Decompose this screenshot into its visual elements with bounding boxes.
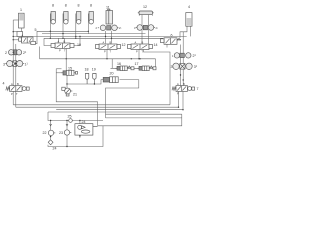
wire 15 left entry — [56, 72, 61, 74]
wire left bus vertical 2 — [15, 44, 17, 107]
wire 20 right — [120, 79, 139, 81]
wire cylinder4 drop2 — [190, 26, 192, 36]
wire bottom supply y120.5 — [48, 112, 103, 121]
wire comp16-17 line — [111, 59, 156, 69]
valve V5 — [19, 37, 36, 45]
svg-text:P: P — [59, 49, 61, 53]
wire right col vertical b — [182, 32, 184, 86]
valve under 11 — [98, 25, 119, 31]
suction cylinder 8a — [51, 12, 55, 24]
svg-text:12: 12 — [122, 43, 126, 47]
wire left bus vertical 1 — [12, 20, 14, 105]
svg-text:8: 8 — [78, 4, 80, 8]
drain diamond 22 — [48, 140, 53, 145]
wire comp23 drop — [66, 121, 68, 130]
svg-text:1¹: 1¹ — [25, 63, 29, 67]
wire comp22 drop — [50, 121, 52, 131]
wire assembly13 bar legs — [141, 15, 143, 25]
wire valve12 legs — [105, 31, 107, 44]
svg-text:A: A — [22, 34, 24, 38]
wire 21 drop — [66, 76, 68, 89]
wire stem cyl 8a — [49, 14, 51, 39]
drain valve 23 — [64, 124, 71, 135]
svg-text:P: P — [104, 50, 106, 54]
svg-text:21: 21 — [73, 93, 77, 97]
svg-text:19: 19 — [92, 68, 96, 72]
tiny port letters — [11, 34, 185, 96]
svg-text:A: A — [135, 40, 137, 44]
wire valve10 port B up — [64, 38, 66, 43]
wire assembly13 bar leg2 — [148, 15, 150, 25]
wire comp20 box — [106, 80, 139, 118]
suction cylinder 8c — [77, 12, 81, 24]
svg-text:T: T — [64, 49, 66, 53]
svg-text:2¹: 2¹ — [156, 26, 158, 30]
svg-text:4: 4 — [188, 5, 190, 9]
svg-text:T: T — [110, 50, 112, 54]
svg-text:A: A — [177, 82, 179, 86]
svg-text:23: 23 — [59, 131, 63, 135]
wire bus horizontal y112 — [48, 111, 160, 113]
check valve 25 — [69, 119, 73, 123]
wire cylinder4 drop — [180, 26, 187, 38]
wire 18 19 bottom line — [67, 80, 103, 84]
wire mid horizontal y58.8 — [40, 47, 156, 59]
svg-text:A: A — [103, 40, 105, 44]
svg-text:24: 24 — [53, 147, 57, 151]
svg-text:3: 3 — [171, 65, 173, 69]
svg-text:7: 7 — [197, 87, 199, 91]
wire cyl1 port to bus — [13, 31, 17, 33]
wire valve14 P down — [138, 50, 140, 59]
valve 3 right — [173, 63, 192, 69]
cylinder 1 — [19, 13, 25, 28]
valve 10 — [51, 43, 74, 49]
valve 7 right — [172, 86, 195, 92]
svg-text:14: 14 — [154, 43, 158, 47]
svg-text:T: T — [16, 92, 18, 96]
lever hooks 13 — [138, 14, 140, 15]
valve 6 — [161, 38, 181, 45]
svg-text:P: P — [11, 92, 13, 96]
wire stem cyl 8b — [62, 14, 64, 39]
svg-text:A: A — [58, 39, 60, 43]
svg-text:3: 3 — [3, 63, 5, 67]
valve 12 — [96, 44, 121, 50]
svg-text:2: 2 — [96, 26, 98, 30]
suction cylinder 8d — [89, 12, 93, 24]
svg-text:2: 2 — [5, 51, 7, 55]
service unit 15 — [61, 70, 78, 75]
svg-text:B: B — [110, 40, 112, 44]
valve 2 right — [174, 53, 191, 58]
svg-text:20: 20 — [110, 72, 114, 76]
wire comp24 inner — [79, 135, 81, 138]
svg-text:3: 3 — [134, 26, 136, 30]
svg-text:25: 25 — [68, 115, 72, 119]
wire manifold y38.3 — [44, 37, 163, 39]
drain valve 22 — [48, 124, 55, 136]
svg-text:8: 8 — [65, 4, 67, 8]
wire valve10 P down — [65, 49, 67, 71]
svg-text:8: 8 — [90, 4, 92, 8]
wire valve5 pilot to bus — [13, 39, 18, 41]
wire cylinder1 drop — [20, 28, 22, 32]
svg-text:18: 18 — [85, 68, 89, 72]
wire manifold y36.4 — [13, 35, 187, 37]
wire bus horizontal y109.7 — [56, 92, 183, 110]
wire valve14 leg2 — [148, 25, 150, 44]
svg-text:3¹: 3¹ — [194, 65, 198, 69]
svg-text:T: T — [142, 50, 144, 54]
wire bottom right trio y125.8 — [98, 114, 182, 126]
wire manifold y31.3 — [48, 30, 89, 32]
regulator 21 — [62, 87, 73, 96]
wire stem cyl 8d — [87, 14, 89, 34]
wire valve10 ports up — [58, 38, 60, 43]
wire bottom right trio y117.9 — [106, 117, 182, 119]
svg-text:1: 1 — [20, 8, 22, 12]
wire valve10 pilot left link — [44, 38, 51, 45]
svg-text:2¹: 2¹ — [193, 54, 197, 58]
svg-text:A: A — [11, 82, 13, 86]
roller valve 3 left — [5, 61, 24, 67]
svg-text:2¹: 2¹ — [23, 51, 27, 55]
svg-text:12: 12 — [143, 5, 147, 9]
wire bus horizontal y104.8 — [13, 104, 170, 106]
wire comp22 to drain — [50, 136, 52, 140]
nozzle 19 — [93, 74, 96, 85]
wire bus horizontal y107.2 — [16, 92, 179, 108]
wire right col vertical a — [180, 45, 182, 86]
svg-text:6: 6 — [171, 34, 173, 38]
wire manifold y33.6 — [42, 33, 146, 35]
filter regulator 20 — [103, 77, 118, 83]
svg-text:P: P — [177, 92, 179, 96]
svg-text:22: 22 — [43, 131, 47, 135]
svg-text:1: 1 — [172, 54, 174, 58]
lever bar 13 — [138, 11, 154, 15]
svg-text:16: 16 — [117, 62, 121, 66]
svg-text:B: B — [183, 82, 185, 86]
valve 4 left spring — [6, 86, 29, 92]
svg-text:15: 15 — [68, 67, 72, 71]
wire valve14 T to right drop — [144, 50, 171, 105]
plunger cylinder 11 — [106, 9, 113, 24]
flow control 16 — [115, 66, 134, 71]
nozzle 18 — [85, 74, 88, 85]
svg-text:B: B — [17, 82, 19, 86]
flow control 17 — [137, 66, 156, 71]
suction cylinder 8b — [64, 12, 68, 24]
svg-text:17: 17 — [135, 62, 139, 66]
wire valve12 leg 2 — [111, 31, 113, 44]
wire bottom right trio y114.2 — [106, 113, 182, 115]
wire drain line y146.5 — [48, 126, 103, 147]
svg-text:8: 8 — [52, 4, 54, 8]
svg-text:B: B — [142, 40, 144, 44]
svg-text:P: P — [136, 50, 138, 54]
svg-text:4: 4 — [3, 82, 5, 86]
roller valve 2 left — [9, 50, 22, 55]
wire valve10 pilot right link — [74, 36, 80, 45]
wire valve5 right loop — [35, 31, 48, 43]
wire comp16 feed — [111, 59, 113, 69]
valve 14 — [128, 44, 153, 50]
wire comp24 drop — [79, 121, 81, 125]
svg-text:24: 24 — [82, 120, 86, 124]
svg-text:11: 11 — [106, 6, 110, 10]
port block under cylinder 1 — [17, 32, 23, 37]
svg-text:10: 10 — [77, 43, 81, 47]
svg-text:B: B — [64, 39, 66, 43]
wire comp23 to drain — [66, 135, 68, 146]
cylinder 4 top right — [186, 13, 192, 27]
wire routing box top — [56, 68, 61, 70]
compressor 24 — [75, 124, 98, 135]
wire stem cyl 8c — [75, 14, 77, 39]
svg-text:2¹: 2¹ — [119, 26, 121, 30]
wire valve12 P down — [106, 50, 108, 59]
wire cylinder1 left L — [13, 19, 18, 21]
wire valve6 down a — [166, 45, 168, 48]
wire routing box left — [56, 69, 97, 126]
valve under 13 — [136, 25, 155, 31]
wire valve14 legs — [141, 25, 143, 44]
svg-text:5: 5 — [35, 28, 37, 32]
